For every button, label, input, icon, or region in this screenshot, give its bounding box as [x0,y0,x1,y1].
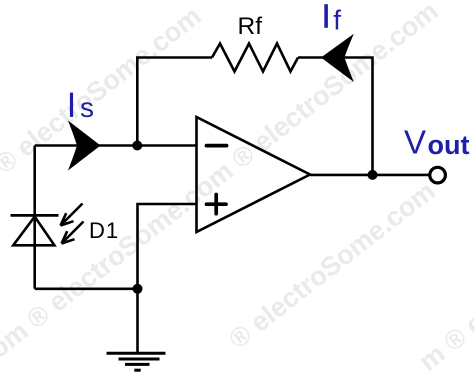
wire from non-inverting input down to ground node [138,204,197,289]
svg-text:Rf: Rf [238,13,263,40]
photodiode D1 cathode bar [11,214,59,217]
op-amp U1 inverting input minus sign [207,144,227,148]
wire from photodiode anode to ground node [35,287,138,290]
node output junction [368,170,378,180]
node inverting-input junction [132,141,142,151]
terminal Vout open circle [430,167,446,183]
node ground junction [133,284,143,294]
current arrow Is [68,121,101,171]
photodiode D1 light arrow 1 [61,204,83,226]
resistor Rf [212,44,298,72]
wire output [310,174,430,177]
current arrow If [321,34,354,82]
label If [324,4,341,35]
svg-text:s: s [80,92,94,123]
label Vout [404,123,469,160]
svg-text:® electroSome.com: ® electroSome.com [0,1,207,180]
op-amp U1 non-inverting input plus sign [207,195,227,214]
photodiode D1 light arrow 2 [62,222,84,244]
svg-text:D1: D1 [89,218,119,243]
svg-text:m ® electroS: m ® electroS [413,251,474,377]
wire from input node down to photodiode cathode [33,146,36,289]
wire input from photodiode to inverting input [35,144,197,147]
op-amp U1 [197,117,311,232]
ground [107,353,166,370]
wire feedback-right from resistor down to output node [298,58,373,176]
svg-text:f: f [333,5,341,36]
label Is [70,92,94,123]
svg-text:out: out [428,130,470,160]
wire feedback-left vertical from resistor to inverting node [137,58,212,146]
svg-text:e.com ® electroSome.com ® elec: e.com ® electroSome.com ® electroSome.co… [0,0,444,380]
photodiode D1 triangle [13,217,54,246]
wire ground stem [136,289,139,354]
svg-text:V: V [404,123,426,160]
